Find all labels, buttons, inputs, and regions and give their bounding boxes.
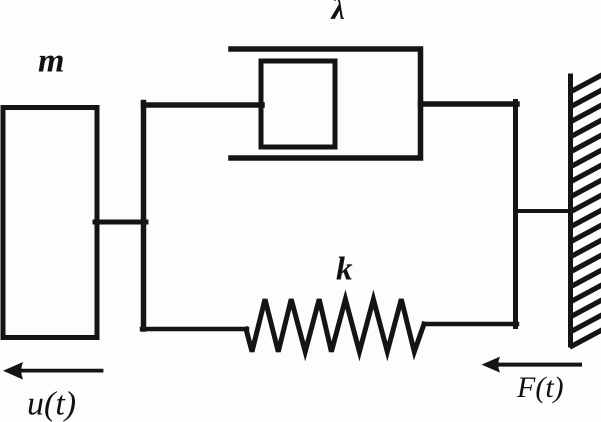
svg-text:k: k	[336, 252, 353, 288]
wire left frame to spring	[142, 327, 247, 332]
wire spring to right frame	[424, 322, 517, 327]
damper piston	[261, 61, 335, 147]
svg-text:m: m	[38, 43, 64, 80]
svg-text:F(t): F(t)	[516, 371, 564, 404]
mass m block	[3, 108, 97, 338]
arrow F(t)	[482, 357, 581, 373]
wire damper to right frame	[421, 101, 518, 107]
wall hatching	[572, 76, 600, 346]
wire left frame vertical	[141, 103, 147, 330]
damper cylinder	[231, 49, 421, 158]
wall vertical line	[568, 76, 573, 345]
wire right frame vertical	[513, 102, 518, 327]
wire damper piston rod	[144, 102, 263, 108]
wire mass to left frame	[95, 220, 146, 225]
arrow u(t)	[3, 362, 102, 380]
svg-text:λ: λ	[330, 0, 345, 26]
svg-text:u(t): u(t)	[27, 386, 76, 422]
spring k zigzag	[246, 299, 424, 352]
wire right frame to wall	[516, 209, 569, 213]
